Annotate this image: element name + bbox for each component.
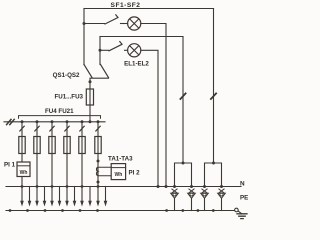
wire N line <box>6 186 241 188</box>
svg-text:PI 1: PI 1 <box>4 162 16 169</box>
node N fork2a <box>203 185 206 188</box>
node N fork1a <box>173 185 176 188</box>
node N fork1b <box>190 185 193 188</box>
lamp EL1 <box>128 17 141 30</box>
wire drop4 down <box>66 154 68 187</box>
node PE 2 <box>26 209 29 212</box>
node QS output <box>89 80 92 83</box>
slash fork1 feed <box>180 93 185 99</box>
wire TA secondary leads <box>98 167 111 176</box>
arrow group line 10 <box>89 187 91 202</box>
wire bus conductor slashes <box>7 119 15 124</box>
slash drop3 <box>50 126 54 131</box>
node N drop3 <box>51 185 54 188</box>
wire PE ground bus <box>6 210 235 212</box>
luminaire 4 <box>218 189 226 211</box>
node fork2 top <box>212 162 215 165</box>
wire drop6 down <box>97 154 99 187</box>
wire vertical lineB to branch2 to QS pole2 <box>99 37 101 65</box>
wire drop4 <box>66 122 68 154</box>
svg-text:TA1-TA3: TA1-TA3 <box>108 156 133 163</box>
node N drop4 <box>66 185 69 188</box>
wire main vertical to QS pole1 <box>83 9 85 65</box>
wire drop6 <box>97 122 99 154</box>
slash drop1 <box>20 126 24 131</box>
fuse drop6 <box>95 137 101 154</box>
bracket over group fuses <box>19 116 101 119</box>
meter PI2 <box>111 164 125 180</box>
node N drop2 <box>36 185 39 188</box>
wire drop3 down <box>51 154 53 187</box>
wire branch2 left <box>100 49 109 51</box>
arrow group line 2 <box>29 187 31 202</box>
switch QS2 blade <box>101 65 109 78</box>
wire drop5 down <box>81 154 83 187</box>
slash drop4 <box>65 126 69 131</box>
node drop3 <box>51 120 54 123</box>
arrow group line 12 <box>105 187 107 202</box>
node drop4 <box>66 120 69 123</box>
node N drop1 <box>21 185 24 188</box>
node drop6 <box>97 120 100 123</box>
switch QS1 blade <box>84 65 92 78</box>
arrow group line 9 <box>81 187 83 202</box>
meter PI1 <box>17 162 30 177</box>
wire drop1 to meter <box>21 154 23 163</box>
arrow group line 4 <box>44 187 46 202</box>
svg-text:FU1...FU3: FU1...FU3 <box>54 94 83 101</box>
switch SF1 <box>105 15 118 24</box>
node branch2 tap <box>99 49 102 52</box>
luminaire 1 <box>171 189 179 211</box>
wire drop1 <box>21 122 23 154</box>
node PE 6 <box>96 209 99 212</box>
fuse drop3 <box>49 137 55 154</box>
wire group bus <box>4 121 105 123</box>
svg-text:QS1-QS2: QS1-QS2 <box>53 72 80 79</box>
arrow group line 6 <box>59 187 61 202</box>
node N drop5 <box>81 185 84 188</box>
node drop5 <box>81 120 84 123</box>
bolted joint circle <box>235 208 239 212</box>
node PE 4 <box>61 209 64 212</box>
wire branch1 to lamp <box>121 23 128 25</box>
node PE joint 2 <box>181 209 184 212</box>
node PE 1 <box>9 209 12 212</box>
luminaire 3 <box>201 189 209 211</box>
arrow group line 7 <box>66 187 68 202</box>
arrow group line 11 <box>97 187 99 202</box>
fuse drop2 <box>34 137 40 154</box>
switch SF2 <box>109 42 122 51</box>
slash drop6 <box>96 126 100 131</box>
wire drop3 <box>51 122 53 154</box>
fuse drop4 <box>64 137 70 154</box>
wire line B <box>100 36 183 38</box>
svg-text:Wh: Wh <box>20 170 28 176</box>
arrow group line 1 <box>21 187 23 202</box>
wire drop2 <box>36 122 38 154</box>
node PE 3 <box>44 209 47 212</box>
node drop2 <box>36 120 39 123</box>
arrow group line 3 <box>36 187 38 202</box>
lamp EL2 <box>128 44 141 57</box>
node drop1 <box>21 120 24 123</box>
wire branch1 right to corner <box>141 24 166 187</box>
node branch1 tap <box>83 22 86 25</box>
wire line A top <box>84 8 214 10</box>
node PE 5 <box>79 209 82 212</box>
wire meter PI1 out <box>21 177 23 187</box>
wire branch2 right to corner <box>141 50 158 186</box>
fuse FU1...FU3 <box>89 89 91 105</box>
node feed on bus <box>89 120 92 123</box>
node PE joint 3 <box>197 209 200 212</box>
wire branch1 left <box>84 23 105 25</box>
wire fork1 feed <box>182 37 184 164</box>
slash drop2 <box>35 126 39 131</box>
node PE joint 1 <box>165 209 168 212</box>
node fork1 top <box>182 162 185 165</box>
svg-text:PI 2: PI 2 <box>129 170 141 177</box>
node PE joint 4 <box>212 209 215 212</box>
node N drop6 <box>97 185 100 188</box>
wire drop5 <box>81 122 83 154</box>
node N fork2b <box>220 185 223 188</box>
wire QS output link <box>90 78 109 89</box>
current transformer TA1-TA3 <box>97 160 100 163</box>
fuse FU4 drop1 <box>19 137 25 154</box>
slash drop5 <box>80 126 84 131</box>
fuse drop5 <box>79 137 85 154</box>
svg-text:FU4 FU21: FU4 FU21 <box>45 108 74 115</box>
svg-text:Wh: Wh <box>115 172 123 178</box>
svg-text:N: N <box>240 181 245 188</box>
arrow group line 8 <box>74 187 76 202</box>
svg-text:PE: PE <box>240 195 248 202</box>
wire drop2 down <box>36 154 38 187</box>
wire branch2 to lamp <box>125 49 128 51</box>
svg-text:EL1-EL2: EL1-EL2 <box>124 61 149 68</box>
node N branch2 <box>157 185 160 188</box>
luminaire 2 <box>188 189 196 211</box>
wire to earth electrode <box>238 211 242 214</box>
svg-text:SF1-SF2: SF1-SF2 <box>111 2 141 9</box>
node N branch1 <box>165 185 168 188</box>
arrow group line 5 <box>51 187 53 202</box>
wire fork2 feed <box>213 9 215 164</box>
wire fuse to bus <box>89 105 91 122</box>
ground electrode <box>237 214 247 219</box>
slash fork2 feed <box>211 93 216 99</box>
fork 2 <box>205 163 222 187</box>
fork 1 <box>175 163 192 187</box>
